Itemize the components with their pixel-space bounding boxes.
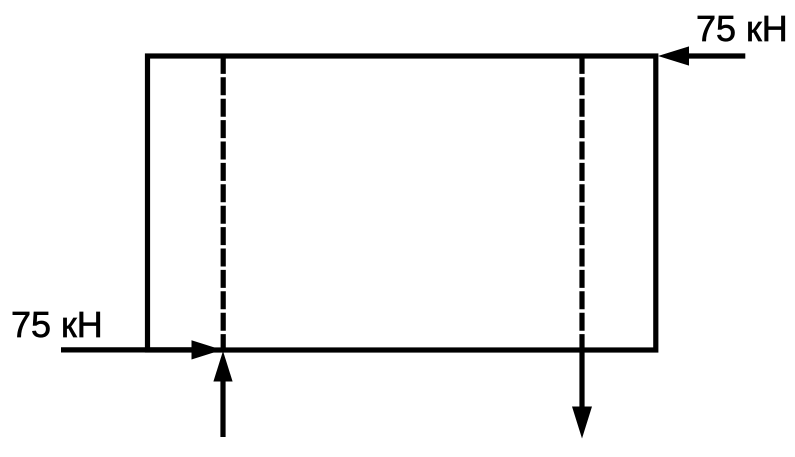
label 75 kN top right xyxy=(696,8,788,50)
reaction arrow up: arrowhead xyxy=(213,351,232,382)
reaction arrow down (at right section): tail wire xyxy=(579,351,584,408)
label 75 kN bottom left xyxy=(11,304,103,346)
force arrow bottom left: tail wire xyxy=(61,347,194,352)
dashed section line I-I (left) xyxy=(221,58,226,352)
bar outline (rectangle body) xyxy=(148,56,656,350)
dashed section line II-II (right) xyxy=(579,58,584,352)
force arrow top right: tail wire xyxy=(687,53,745,58)
reaction arrow up (at left section): tail wire xyxy=(220,380,225,437)
reaction arrow down: arrowhead xyxy=(572,407,592,439)
force arrow top right: arrowhead xyxy=(658,46,689,65)
force arrow bottom left: arrowhead xyxy=(192,340,223,359)
